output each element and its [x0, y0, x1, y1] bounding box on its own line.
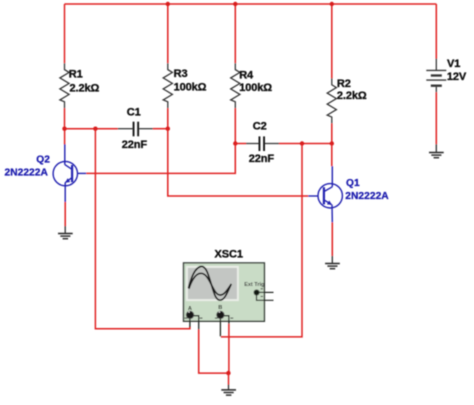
svg-text:C1: C1: [127, 107, 141, 119]
svg-text:B: B: [218, 305, 222, 311]
svg-text:V1: V1: [447, 58, 460, 70]
scope ground junction dot: [226, 371, 230, 375]
ground (battery): [429, 144, 444, 158]
wire R2 drop from rail: [331, 4, 333, 78]
resistor R2: [327, 78, 336, 123]
node B junction dot: [166, 127, 170, 131]
wire scope channel B from node (302,143.5) down to scope: [221, 144, 302, 337]
junction dot rail R4: [233, 2, 237, 6]
wire R2 bottom to node D: [331, 123, 333, 143]
wire node A horizontal to C1: [65, 128, 118, 130]
svg-text:R4: R4: [239, 70, 254, 82]
wire scope channel A from node (95.4,128.7) down to scope: [95, 129, 189, 329]
ground (Q2 emitter): [58, 226, 73, 239]
wire A- to scope ground: [199, 329, 229, 373]
wire R1 bottom to node A: [64, 108, 66, 129]
svg-text:C2: C2: [253, 121, 267, 133]
svg-text:Ext Trig: Ext Trig: [244, 282, 264, 288]
scope trace A (large sine): [188, 267, 231, 301]
resistor R3: [163, 63, 172, 108]
wire R3 bottom: [167, 108, 169, 129]
wire node C down and left to Q2 base: [86, 144, 235, 174]
terminal A minus pin: [194, 316, 199, 330]
wire R1 drop from rail: [64, 4, 66, 63]
node A junction dot: [62, 127, 66, 131]
transistor Q1 (2N2222A, base left): [308, 166, 342, 222]
terminal B minus mark: [230, 317, 233, 319]
wire Q1 emitter to ground: [331, 222, 333, 256]
resistor R1: [60, 63, 69, 108]
terminal B pin stub: [219, 319, 221, 337]
svg-text:Q1: Q1: [346, 178, 360, 189]
Ext Trig minus mark: [261, 295, 263, 297]
Ext Trig pin stubs: [257, 292, 274, 300]
terminal A plus mark: [185, 317, 188, 319]
node C junction dot: [233, 141, 237, 145]
svg-text:R1: R1: [69, 69, 83, 81]
junction dot rail R2: [330, 2, 334, 6]
ground (scope): [221, 385, 236, 396]
scope trace B (small sine): [189, 273, 231, 295]
wire B- to scope ground: [228, 324, 230, 373]
wire C2 right to node D: [279, 143, 332, 145]
wire top rail VCC: [65, 3, 437, 5]
wire Q2 emitter to ground: [64, 202, 66, 226]
wire V1 drop from rail: [435, 4, 437, 59]
junction dot rail R3: [166, 2, 170, 6]
wire C1 right to node B: [153, 128, 168, 130]
terminal A pin stub: [189, 319, 191, 328]
wire R3 drop from rail: [167, 4, 169, 63]
svg-text:22nF: 22nF: [249, 153, 275, 165]
wire node D down to Q1 collector: [331, 144, 333, 167]
wire node B down and right to Q1 base: [168, 129, 308, 196]
terminal B minus pin: [224, 316, 229, 324]
svg-text:2.2kΩ: 2.2kΩ: [337, 90, 367, 102]
battery V1: [426, 59, 446, 93]
oscilloscope screen: [186, 266, 239, 301]
svg-text:XSC1: XSC1: [215, 249, 243, 261]
terminal B plus mark: [215, 317, 218, 319]
capacitor C2: [235, 136, 279, 151]
capacitor C1: [118, 122, 153, 137]
wire R4 bottom to node C: [234, 108, 236, 143]
Ext Trig terminal: [254, 290, 259, 295]
svg-text:R2: R2: [337, 78, 351, 90]
node scope-B tap junction dot: [300, 141, 304, 145]
svg-text:22nF: 22nF: [122, 139, 148, 151]
wire node A down to Q2 collector: [64, 129, 66, 145]
node scope-A tap junction dot: [93, 127, 97, 131]
oscilloscope XSC1 body: [184, 263, 265, 321]
ground (Q1 emitter): [325, 256, 340, 269]
wire V1 to ground: [435, 92, 437, 144]
terminal A minus mark: [200, 317, 203, 319]
wire R4 drop from rail: [234, 4, 236, 63]
svg-text:Q2: Q2: [36, 155, 50, 166]
svg-text:12V: 12V: [447, 71, 467, 83]
wire junction to ground: [228, 373, 230, 384]
svg-text:R3: R3: [174, 68, 188, 80]
svg-text:100kΩ: 100kΩ: [174, 82, 207, 94]
svg-text:2.2kΩ: 2.2kΩ: [70, 83, 100, 95]
node D junction dot: [330, 141, 334, 145]
svg-text:100kΩ: 100kΩ: [239, 82, 272, 94]
svg-text:2N2222A: 2N2222A: [345, 191, 389, 202]
Ext Trig plus mark: [261, 288, 263, 290]
resistor R4: [231, 63, 240, 108]
svg-text:2N2222A: 2N2222A: [5, 167, 49, 178]
transistor Q2 (2N2222A, mirrored, base right): [53, 144, 86, 202]
